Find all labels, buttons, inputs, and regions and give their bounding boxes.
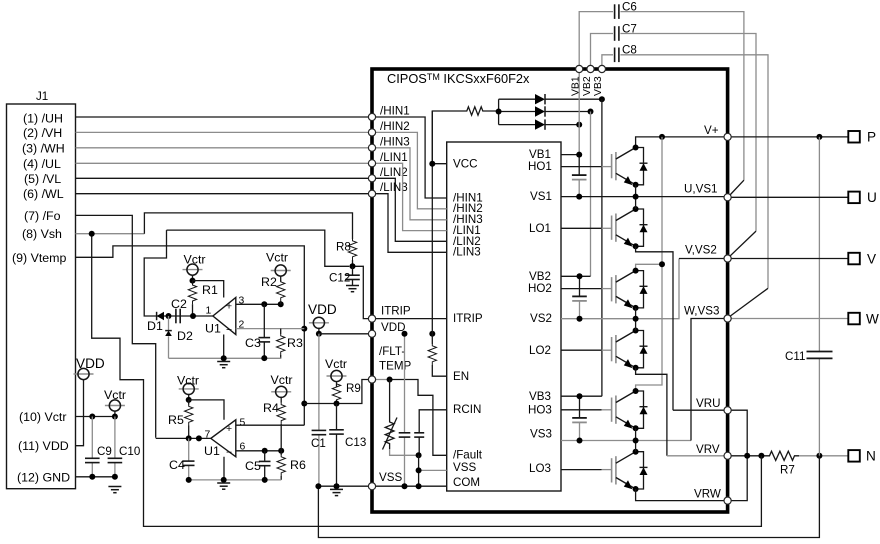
svg-text:VRW: VRW: [694, 488, 721, 501]
svg-text:(10) Vctr: (10) Vctr: [19, 410, 67, 424]
svg-text:HO3: HO3: [528, 403, 552, 416]
svg-text:W,VS3: W,VS3: [684, 305, 719, 318]
svg-text:VS1: VS1: [530, 190, 552, 203]
svg-text:+: +: [226, 302, 232, 313]
svg-text:VRV: VRV: [696, 443, 720, 456]
svg-text:/LIN1: /LIN1: [380, 151, 408, 164]
svg-text:(8) Vsh: (8) Vsh: [22, 227, 62, 241]
svg-text:U1: U1: [205, 322, 221, 336]
svg-text:R4: R4: [263, 401, 279, 415]
svg-text:C1: C1: [311, 437, 326, 450]
svg-text:EN: EN: [453, 370, 469, 383]
svg-text:U,VS1: U,VS1: [684, 182, 718, 195]
svg-text:Vctr: Vctr: [271, 373, 293, 387]
svg-text:V+: V+: [704, 124, 719, 137]
svg-text:V,VS2: V,VS2: [685, 244, 717, 257]
svg-text:R1: R1: [202, 283, 218, 297]
svg-text:J1: J1: [36, 90, 48, 103]
svg-text:(3) /WH: (3) /WH: [22, 141, 65, 155]
svg-text:VDD: VDD: [76, 356, 105, 371]
svg-text:C12: C12: [329, 272, 350, 285]
svg-text:ITRIP: ITRIP: [453, 312, 483, 325]
svg-text:U: U: [867, 190, 877, 205]
svg-text:(2) /VH: (2) /VH: [23, 126, 62, 140]
svg-text:C13: C13: [345, 436, 366, 449]
svg-text:VB2: VB2: [582, 76, 593, 96]
svg-text:VSS: VSS: [453, 461, 476, 474]
svg-text:/LIN3: /LIN3: [380, 181, 408, 194]
svg-text:5: 5: [240, 418, 246, 429]
svg-text:(6) /WL: (6) /WL: [23, 187, 64, 201]
svg-text:Vctr: Vctr: [104, 388, 126, 402]
svg-text:C2: C2: [171, 297, 187, 311]
svg-text:R5: R5: [168, 413, 184, 427]
svg-text:(9) Vtemp: (9) Vtemp: [12, 251, 67, 265]
svg-text:COM: COM: [453, 476, 480, 489]
svg-text:LO1: LO1: [529, 222, 551, 235]
svg-text:VB3: VB3: [593, 76, 604, 96]
svg-text:CIPOSTM IKCSxxF60F2x: CIPOSTM IKCSxxF60F2x: [387, 71, 530, 86]
svg-text:(5) /VL: (5) /VL: [24, 172, 61, 186]
svg-text:LO3: LO3: [529, 462, 551, 475]
svg-text:/HIN2: /HIN2: [380, 120, 410, 133]
svg-text:V: V: [867, 251, 876, 266]
svg-text:P: P: [867, 130, 876, 145]
svg-text:VDD: VDD: [308, 302, 337, 317]
svg-text:Vctr: Vctr: [325, 357, 347, 371]
svg-text:R2: R2: [261, 275, 277, 289]
svg-text:/LIN2: /LIN2: [380, 166, 408, 179]
svg-text:Vctr: Vctr: [184, 253, 206, 267]
svg-text:C6: C6: [622, 1, 637, 14]
svg-text:D2: D2: [177, 329, 193, 343]
svg-text:W: W: [866, 311, 879, 326]
svg-text:HO2: HO2: [528, 282, 552, 295]
svg-text:R6: R6: [290, 458, 306, 472]
svg-text:LO2: LO2: [529, 344, 551, 357]
svg-text:/FLT-: /FLT-: [379, 345, 405, 358]
svg-text:C9: C9: [97, 445, 112, 458]
svg-text:U1: U1: [204, 444, 220, 458]
svg-text:/HIN3: /HIN3: [380, 135, 410, 148]
svg-text:ITRIP: ITRIP: [381, 305, 411, 318]
svg-text:N: N: [866, 449, 876, 464]
svg-text:(11) VDD: (11) VDD: [18, 439, 69, 453]
svg-text:R3: R3: [287, 336, 303, 350]
svg-text:R7: R7: [780, 464, 795, 477]
svg-text:VSS: VSS: [379, 471, 402, 484]
svg-text:−: −: [226, 448, 232, 459]
svg-text:(7) /Fo: (7) /Fo: [24, 209, 61, 223]
svg-text:/LIN3: /LIN3: [453, 246, 481, 259]
svg-text:VS2: VS2: [530, 312, 552, 325]
svg-text:(4) /UL: (4) /UL: [23, 157, 61, 171]
svg-text:C8: C8: [622, 44, 637, 57]
svg-text:C4: C4: [169, 458, 185, 472]
svg-text:C7: C7: [622, 22, 637, 35]
svg-text:VRU: VRU: [696, 397, 720, 410]
svg-text:HO1: HO1: [528, 160, 552, 173]
svg-text:RCIN: RCIN: [453, 403, 481, 416]
svg-text:/HIN1: /HIN1: [380, 105, 410, 118]
svg-text:C3: C3: [245, 336, 261, 350]
svg-text:VS3: VS3: [530, 428, 552, 441]
svg-text:R8: R8: [336, 241, 351, 254]
svg-text:TEMP: TEMP: [379, 360, 411, 373]
svg-text:C5: C5: [245, 459, 261, 473]
svg-text:R9: R9: [346, 382, 361, 395]
svg-text:1: 1: [206, 306, 212, 317]
svg-text:C11: C11: [785, 350, 805, 363]
svg-text:(12) GND: (12) GND: [17, 470, 70, 484]
svg-text:Vctr: Vctr: [266, 251, 288, 265]
svg-text:Vctr: Vctr: [177, 374, 199, 388]
svg-text:(1) /UH: (1) /UH: [23, 112, 63, 126]
svg-text:VDD: VDD: [381, 321, 405, 334]
svg-text:+: +: [226, 424, 232, 435]
svg-text:C10: C10: [119, 445, 140, 458]
svg-text:/Fault: /Fault: [453, 449, 483, 462]
svg-text:D1: D1: [147, 319, 163, 333]
svg-text:VB3: VB3: [529, 390, 551, 403]
svg-text:VCC: VCC: [453, 158, 477, 171]
svg-text:−: −: [226, 325, 232, 336]
